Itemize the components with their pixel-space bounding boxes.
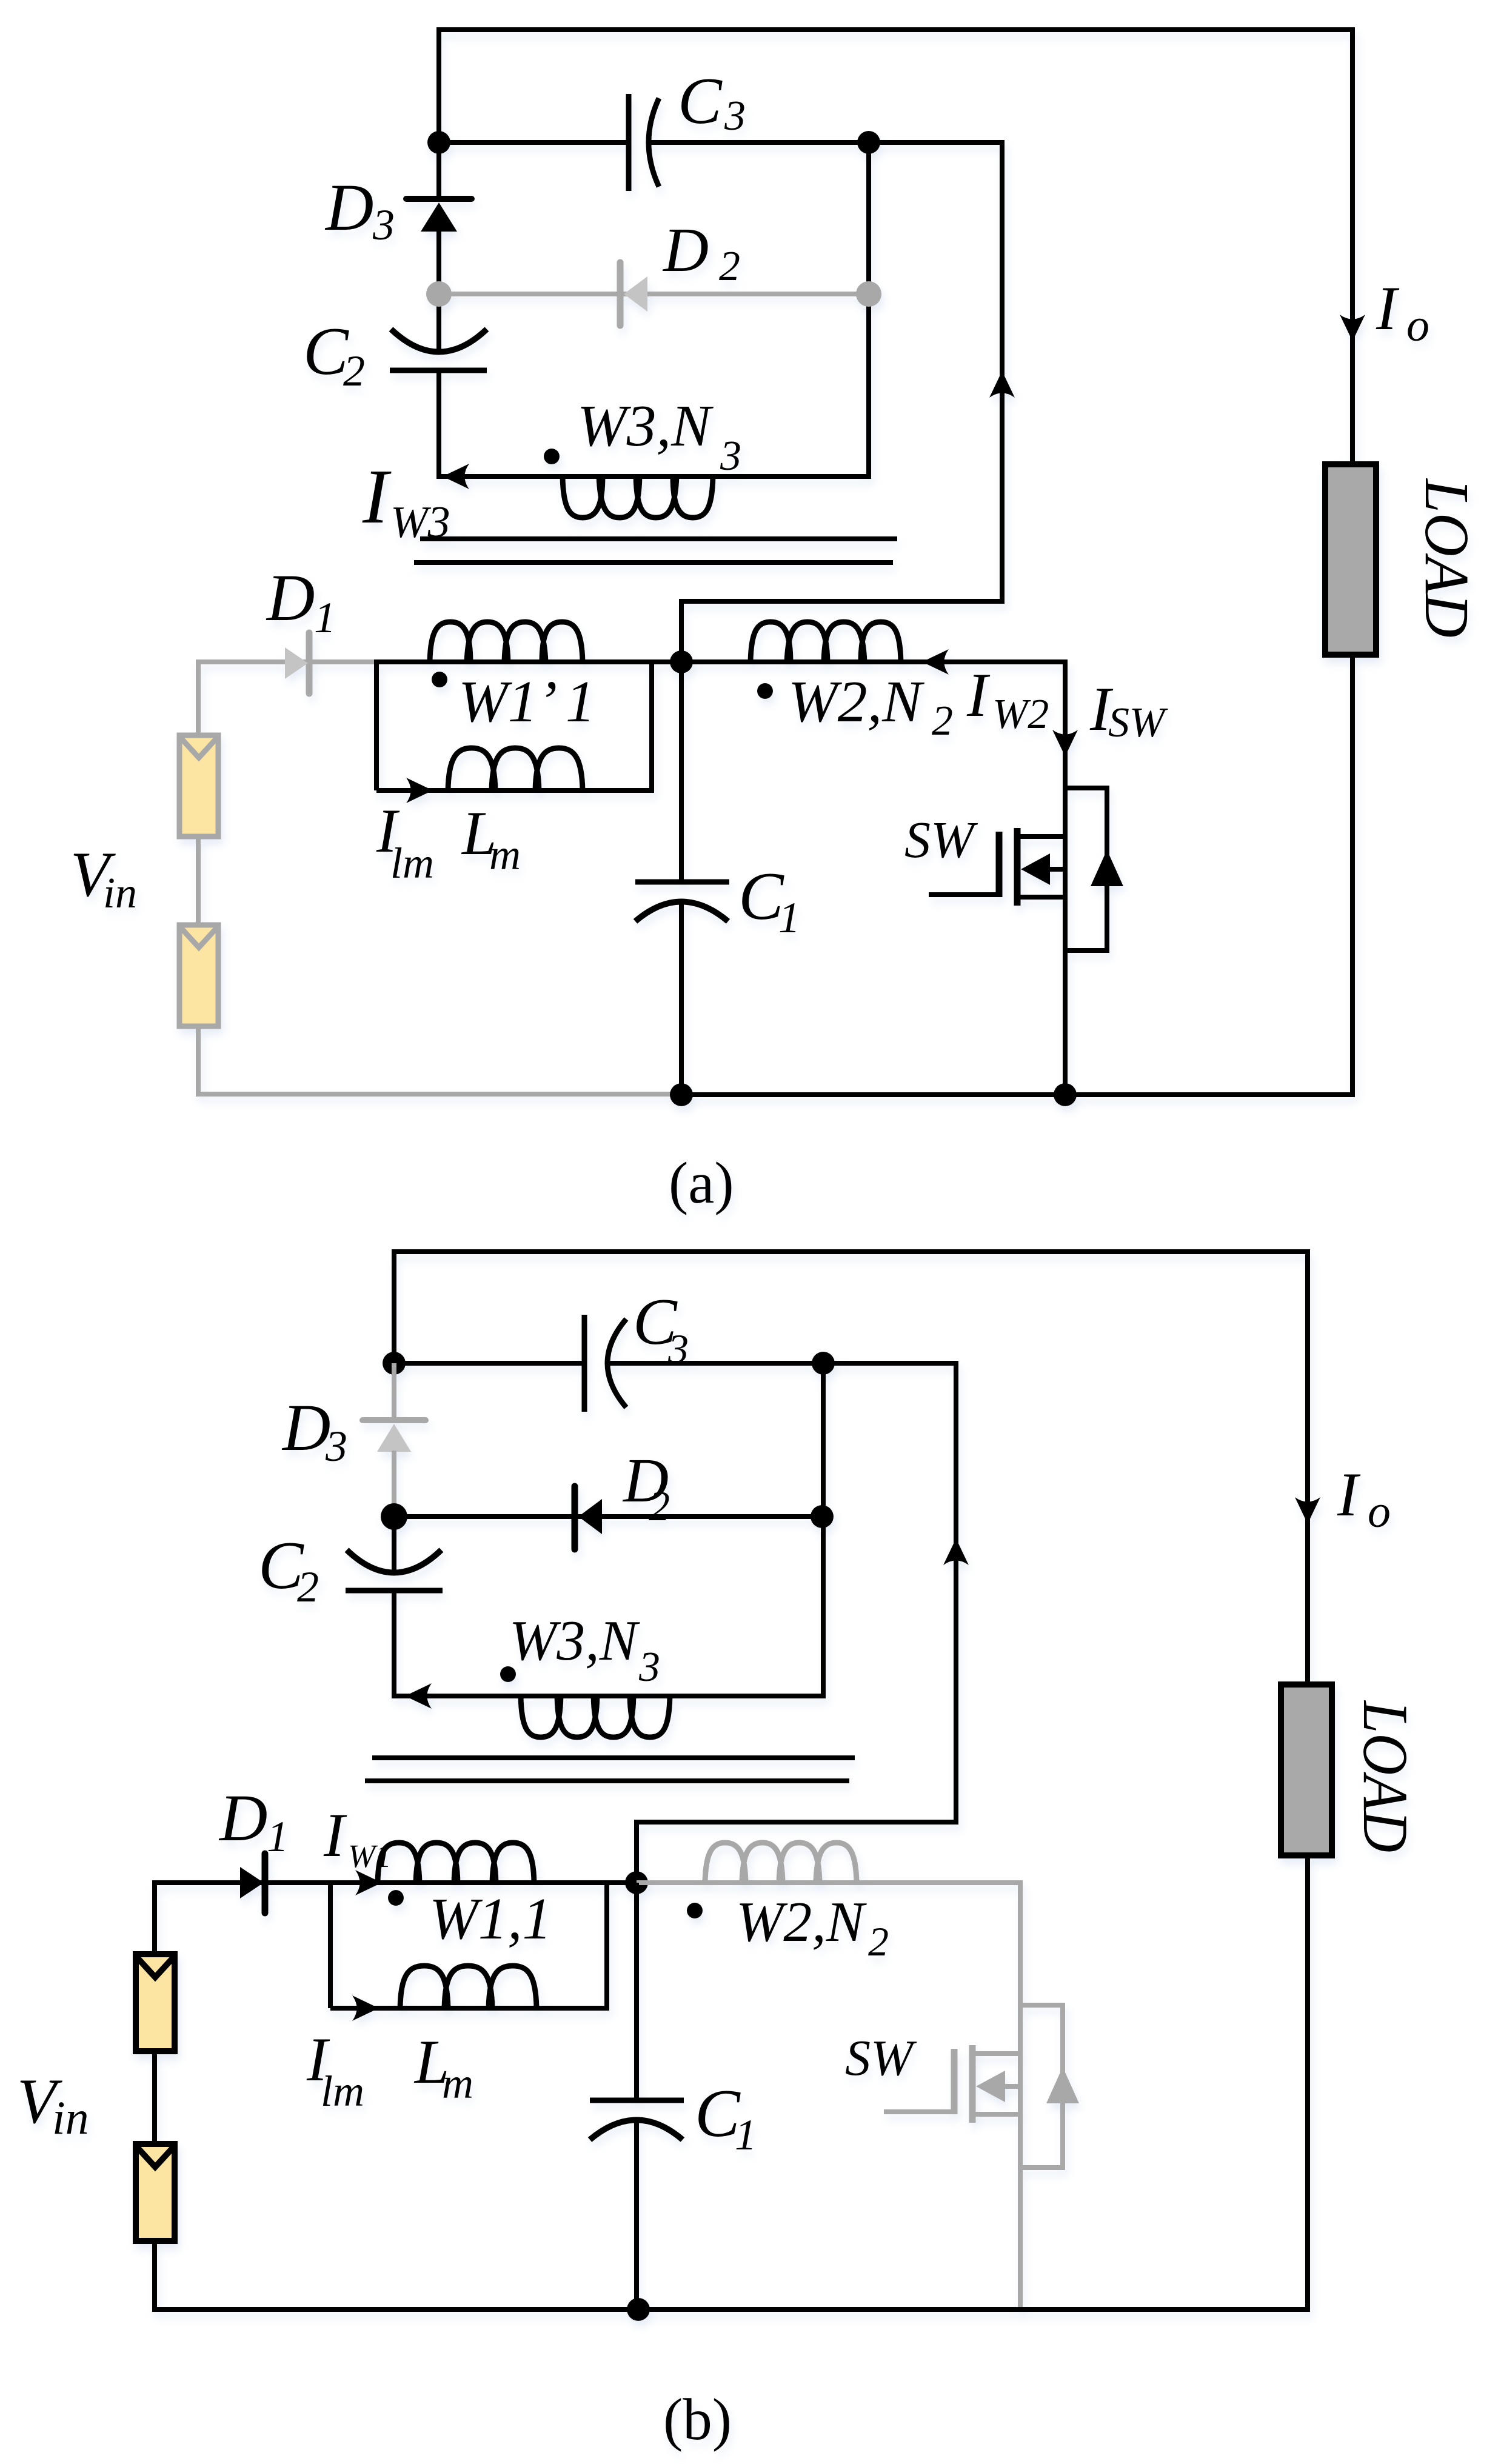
svg-text:(b): (b): [663, 2387, 732, 2452]
winding W1 (a) loop frame: [376, 662, 681, 790]
node C (a) gray junction dot: [426, 281, 452, 307]
wire right rail down to load (b): [1305, 1249, 1310, 1688]
svg-text:2: 2: [932, 698, 953, 744]
label D2 (a): [662, 215, 740, 290]
wire C3 row left segment (a): [439, 140, 631, 145]
diode D3 (b) gray: [363, 1363, 426, 1517]
svg-text:2: 2: [297, 1563, 319, 1611]
svg-text:D: D: [662, 215, 709, 285]
label D2 (b): [622, 1446, 670, 1530]
solar module PV1 (b): [136, 1954, 175, 2051]
svg-text:lm: lm: [321, 2067, 364, 2115]
label LOAD (b): [1350, 1700, 1421, 1852]
node D (b) junction dot: [811, 1505, 834, 1528]
arrow ISW down (a): [1052, 730, 1078, 756]
svg-text:1: 1: [778, 893, 800, 942]
wire feedback column vertical (a): [1000, 140, 1005, 604]
capacitor C3 (a): [629, 94, 659, 191]
svg-text:2: 2: [868, 1918, 889, 1965]
label ISW (a): [1089, 675, 1168, 746]
svg-text:3: 3: [638, 1644, 660, 1691]
svg-text:LOAD: LOAD: [1350, 1700, 1421, 1852]
winding W1,1 (b) coil: [378, 1843, 534, 1883]
node C (b) junction dot: [381, 1503, 407, 1530]
solar module PV1 (a): [179, 735, 218, 836]
label Ilm (a): [376, 796, 434, 887]
node G (a) bottom SW junction dot: [1054, 1083, 1077, 1106]
inductor Lm (b) branch: [330, 1880, 607, 2021]
svg-text:3: 3: [372, 201, 395, 249]
label C3 (a): [678, 64, 746, 139]
wire W2 row (b) gray: [637, 1880, 1023, 1885]
label Lm (a): [461, 799, 521, 879]
arrow up on feedback column (b): [943, 1538, 969, 1565]
svg-text:1: 1: [314, 593, 336, 642]
svg-text:(a): (a): [669, 1150, 734, 1215]
svg-text:2: 2: [719, 243, 740, 290]
svg-text:1: 1: [267, 1812, 289, 1861]
wire W3 row (a) with left arrow: [439, 464, 871, 489]
diode D3 (a): [406, 142, 472, 294]
wire between PV modules (a): [196, 839, 201, 923]
svg-text:lm: lm: [390, 839, 434, 887]
mosfet SW (a): [929, 828, 1065, 906]
svg-text:W2: W2: [992, 691, 1049, 738]
svg-text:D: D: [324, 170, 373, 244]
wire top rail (a): [439, 27, 1355, 32]
solar module PV2 (b): [136, 2144, 175, 2241]
wire C3 row left segment (b): [394, 1361, 587, 1366]
solar module PV2 (a): [179, 925, 218, 1026]
polarity dot W2 (a): [757, 683, 773, 699]
label D3 (a): [324, 170, 395, 249]
diode D1 (b): [155, 1854, 333, 1913]
body diode of SW (a): [1065, 788, 1123, 950]
svg-text:SW: SW: [1108, 699, 1168, 746]
label C1 (a): [738, 859, 800, 942]
capacitor C2 (a): [390, 294, 487, 479]
svg-text:W3,N: W3,N: [509, 1609, 641, 1672]
svg-text:I: I: [1376, 274, 1400, 343]
svg-text:o: o: [1368, 1486, 1391, 1537]
wire between PV modules (b): [152, 2051, 157, 2141]
svg-text:W2,N: W2,N: [788, 669, 924, 735]
label W1,1 (a): [458, 669, 595, 735]
arrow IW1 right (b): [355, 1870, 382, 1895]
svg-text:I: I: [966, 661, 991, 730]
node A (b) junction dot: [383, 1352, 406, 1375]
label W3,N3 (b): [509, 1609, 660, 1691]
label Lm (b): [413, 2028, 473, 2108]
capacitor C1 (b): [590, 1883, 684, 2309]
wire C3 row right segment (a): [649, 140, 869, 145]
inductor Lm (b) coil: [400, 1966, 537, 2008]
node B (a) junction dot: [857, 131, 880, 154]
wire load bottom riser (b): [1305, 1855, 1310, 2312]
label D3 (b): [281, 1391, 347, 1471]
node E (a) W1-W2-C1 junction dot: [670, 650, 693, 673]
svg-text:C: C: [678, 64, 723, 138]
label SW (a): [904, 810, 978, 869]
polarity dot W3 (b): [500, 1666, 516, 1682]
svg-text:o: o: [1406, 300, 1429, 351]
label Io (b): [1337, 1460, 1391, 1537]
svg-text:W1: W1: [348, 1838, 392, 1874]
load resistor (a): [1325, 464, 1376, 655]
caption (a): [669, 1150, 734, 1215]
polarity dot W3 (a): [544, 449, 560, 464]
wire switch column (b) gray: [1018, 1880, 1023, 2309]
transformer core (a): [414, 539, 897, 563]
svg-text:I: I: [362, 453, 392, 539]
wire W3 right vertical (b): [821, 1363, 826, 1698]
wire right rail down to load (a): [1350, 27, 1355, 464]
wire W2 row (a) with left arrow: [681, 649, 1068, 675]
winding W2,N2 (a) coil: [750, 622, 901, 662]
wire W3 right vertical (a): [866, 142, 871, 479]
svg-text:3: 3: [724, 93, 746, 139]
wire link from node B to feedback column (a): [869, 140, 1005, 145]
label SW (b): [845, 2030, 917, 2086]
polarity dot W1 (b): [388, 1890, 404, 1906]
label C2 (a): [303, 314, 365, 395]
wire link from node B to feedback column (b): [823, 1361, 958, 1366]
svg-text:I: I: [323, 1801, 347, 1870]
label IW1 (b): [323, 1801, 392, 1874]
wire left drop from top rail to node A (a): [436, 27, 441, 142]
inductor Lm (a) branch: [376, 659, 652, 803]
svg-text:2: 2: [343, 347, 365, 395]
node D (a) gray junction dot: [856, 281, 881, 307]
svg-text:1: 1: [735, 2111, 757, 2159]
winding W1,1 (a) coil: [430, 622, 583, 662]
wire feedback elbow to W1-W2 node (a): [681, 601, 1002, 665]
winding W3,N3 (a) coil: [563, 476, 713, 518]
wire bottom rail (a): [681, 1092, 1355, 1097]
label Vin (a): [70, 839, 137, 917]
wire feedback column vertical (b): [954, 1361, 958, 1825]
capacitor C2 (b): [346, 1517, 443, 1698]
wire feedback elbow to W1-W2 node (b): [637, 1822, 956, 1885]
wire top rail (b): [394, 1249, 1310, 1254]
inductor Lm (a) coil: [448, 748, 583, 790]
label W2,N2 (b): [736, 1891, 889, 1965]
mosfet SW (b) gray: [884, 2045, 1020, 2123]
label IW3 (a): [362, 453, 450, 547]
wire left drop from top rail to node A (b): [392, 1249, 396, 1363]
node F (b) bottom C1 junction dot: [627, 2298, 650, 2321]
svg-text:m: m: [489, 830, 521, 879]
svg-text:I: I: [1337, 1460, 1361, 1529]
wire C3 row right segment (b): [609, 1361, 823, 1366]
label W2,N2 (a): [788, 669, 953, 744]
svg-text:3: 3: [325, 1422, 347, 1471]
winding W3,N3 (b) coil: [521, 1696, 670, 1737]
diode D2 (b): [394, 1486, 822, 1549]
load resistor (b): [1281, 1684, 1332, 1855]
node B (b) junction dot: [812, 1352, 835, 1375]
arrow Io down (b): [1295, 1497, 1320, 1524]
label Vin (b): [17, 2066, 89, 2144]
svg-text:SW: SW: [845, 2030, 917, 2086]
svg-text:SW: SW: [904, 810, 978, 869]
label LOAD (a): [1412, 478, 1482, 638]
transformer core (b): [365, 1758, 855, 1781]
wire PV top lead (b): [152, 1880, 157, 1954]
node F (a) bottom C1 junction dot: [670, 1083, 693, 1106]
diode D1 (a) gray: [198, 633, 376, 693]
winding W2,N2 (b) coil gray: [705, 1843, 857, 1883]
svg-text:LOAD: LOAD: [1412, 478, 1482, 638]
svg-text:2: 2: [649, 1483, 670, 1530]
svg-text:m: m: [442, 2059, 473, 2108]
label Io (a): [1376, 274, 1429, 351]
arrow up on feedback column (a): [989, 371, 1015, 398]
arrow Io down (a): [1340, 315, 1365, 341]
wire load bottom riser (a): [1350, 655, 1355, 1097]
svg-text:3: 3: [720, 433, 741, 479]
caption (b): [663, 2387, 732, 2452]
body diode of SW (b) gray: [1020, 2005, 1079, 2168]
label D1 (a): [266, 561, 336, 642]
node A (a) junction dot: [427, 131, 450, 154]
wire PV bottom lead and ground rail (a) gray: [198, 1026, 681, 1094]
wire PV bottom lead and bottom rail (b): [155, 2241, 1310, 2309]
svg-text:D: D: [281, 1391, 330, 1464]
wire switch column (a): [1063, 659, 1068, 1095]
svg-text:D: D: [266, 561, 315, 635]
capacitor C3 (b): [584, 1315, 626, 1412]
svg-text:W2,N: W2,N: [736, 1891, 868, 1954]
label C1 (b): [695, 2076, 757, 2159]
svg-text:W1’ 1: W1’ 1: [458, 669, 595, 735]
svg-text:C: C: [738, 859, 784, 934]
label W1,1 (b): [429, 1886, 552, 1951]
wire PV top lead (a): [196, 659, 201, 735]
label C2 (b): [258, 1528, 319, 1611]
label D1 (b): [218, 1781, 289, 1861]
capacitor C1 (a): [635, 665, 729, 1095]
wire W3 row (b) with left arrow: [394, 1683, 826, 1709]
polarity dot W2 (b): [687, 1903, 703, 1918]
svg-text:W3,N: W3,N: [577, 393, 714, 459]
label Ilm (b): [306, 2025, 364, 2115]
svg-text:in: in: [103, 869, 137, 917]
diode D2 (a) gray: [439, 262, 869, 326]
label W3,N3 (a): [577, 393, 741, 479]
label IW2 (a): [966, 661, 1049, 738]
polarity dot W1 (a): [432, 672, 447, 687]
svg-text:C: C: [695, 2076, 741, 2151]
label C3 (b): [633, 1285, 689, 1372]
svg-text:in: in: [52, 2091, 89, 2144]
svg-text:W1,1: W1,1: [429, 1886, 552, 1951]
node E (b) W1-W2-C1 junction dot: [625, 1871, 648, 1894]
svg-text:C: C: [303, 314, 349, 389]
winding W1 (b) loop frame: [330, 1883, 637, 2008]
svg-text:D: D: [218, 1781, 267, 1855]
